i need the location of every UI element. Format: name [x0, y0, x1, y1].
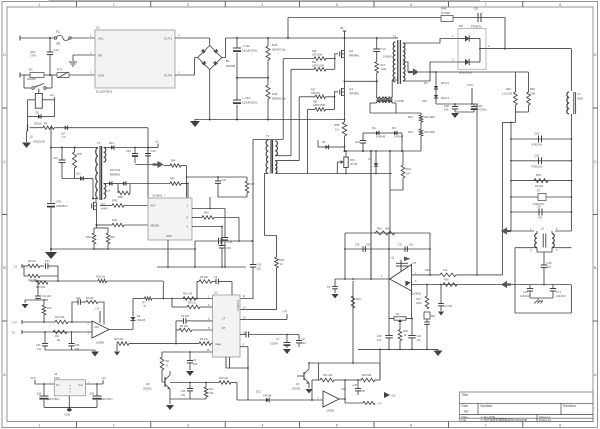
svg-text:CT/A9B: CT/A9B	[395, 99, 404, 103]
svg-text:2F1C1: 2F1C1	[441, 81, 450, 85]
svg-text:1: 1	[38, 3, 40, 7]
svg-text:Title: Title	[462, 393, 469, 397]
svg-text:7: 7	[485, 3, 487, 7]
svg-text:RS609: RS609	[226, 64, 236, 68]
svg-text:C16: C16	[355, 140, 360, 144]
svg-text:5: 5	[336, 424, 338, 428]
svg-text:R45: R45	[272, 43, 278, 47]
svg-text:6: 6	[410, 3, 412, 7]
svg-text:U3A: U3A	[94, 326, 99, 329]
svg-text:C42: C42	[126, 149, 131, 153]
svg-text:10MW: 10MW	[27, 77, 36, 81]
svg-text:E7: E7	[537, 189, 541, 193]
svg-text:300 20W: 300 20W	[424, 115, 435, 119]
svg-text:10W: 10W	[530, 93, 536, 96]
svg-text:10R/0.25W: 10R/0.25W	[312, 65, 325, 68]
svg-text:680K/0.5w: 680K/0.5w	[272, 97, 287, 101]
svg-text:ELECTRO1: ELECTRO1	[48, 399, 61, 401]
svg-text:R49: R49	[506, 87, 511, 91]
svg-text:RP1: RP1	[350, 159, 355, 162]
svg-text:471: 471	[538, 216, 543, 220]
svg-text:+5v: +5v	[391, 394, 396, 398]
svg-text:D4: D4	[424, 81, 428, 85]
svg-text:5.1/0.5W: 5.1/0.5W	[502, 93, 513, 96]
svg-text:R38: R38	[334, 123, 340, 127]
svg-text:C6: C6	[537, 205, 541, 209]
svg-text:D8: D8	[459, 24, 463, 28]
svg-text:G: G	[69, 386, 71, 388]
svg-text:0.1: 0.1	[335, 128, 339, 132]
svg-text:R18 10k: R18 10k	[219, 377, 229, 380]
svg-text:FR303V: FR303V	[471, 25, 482, 29]
svg-text:+12: +12	[155, 141, 160, 144]
svg-text:15: 15	[12, 331, 15, 335]
svg-text:C20: C20	[534, 132, 540, 136]
svg-text:R35: R35	[425, 269, 430, 272]
svg-text:104: 104	[417, 339, 422, 342]
svg-text:471: 471	[547, 265, 552, 269]
svg-text:3: 3	[187, 424, 189, 428]
svg-text:R40: R40	[86, 235, 91, 239]
svg-text:104: 104	[366, 244, 371, 247]
svg-text:R36: R36	[444, 279, 449, 282]
svg-text:4700/16v: 4700/16v	[531, 164, 543, 168]
svg-text:10R 2W: 10R 2W	[311, 92, 320, 95]
svg-text:DL0207BO1: DL0207BO1	[96, 90, 113, 94]
svg-text:7812: 7812	[54, 377, 60, 380]
svg-text:3: 3	[187, 3, 189, 7]
svg-text:C10: C10	[381, 47, 386, 51]
svg-text:UC3842: UC3842	[152, 194, 163, 198]
svg-text:D14: D14	[109, 141, 114, 145]
svg-text:C19: C19	[547, 261, 552, 265]
svg-text:1N4148: 1N4148	[137, 320, 146, 322]
svg-text:8: 8	[559, 424, 561, 428]
svg-text:10K: 10K	[443, 269, 448, 272]
svg-text:1/2W: 1/2W	[381, 68, 387, 71]
svg-text:3K 2W: 3K 2W	[350, 163, 358, 166]
svg-text:4700/16v: 4700/16v	[531, 143, 543, 147]
svg-text:MBR360: MBR360	[110, 173, 121, 177]
svg-text:OUT4: OUT4	[164, 73, 172, 77]
svg-text:R34: R34	[171, 160, 176, 163]
svg-text:150uF/200v: 150uF/200v	[242, 101, 258, 105]
svg-text:4: 4	[261, 3, 263, 7]
svg-text:2: 2	[113, 3, 115, 7]
svg-text:PE: PE	[98, 53, 102, 57]
svg-text:10R.25W: 10R.25W	[312, 54, 323, 57]
svg-text:D21: D21	[256, 390, 261, 394]
svg-text:R28: R28	[118, 195, 123, 199]
svg-text:C38: C38	[355, 244, 360, 247]
svg-text:+B: +B	[340, 26, 344, 30]
svg-text:300 20W: 300 20W	[424, 130, 435, 134]
svg-text:2F1C1: 2F1C1	[441, 96, 450, 100]
svg-text:R12: R12	[408, 115, 413, 119]
svg-text:Isage: Isage	[215, 343, 222, 346]
svg-text:R3 39k: R3 39k	[200, 276, 209, 279]
svg-text:C: C	[3, 160, 6, 164]
svg-text:275v: 275v	[30, 54, 37, 58]
svg-text:1K/2W: 1K/2W	[535, 184, 544, 188]
svg-text:LM358: LM358	[96, 341, 104, 345]
svg-text:D12 D13: D12 D13	[110, 168, 121, 172]
svg-text:R27: R27	[417, 298, 422, 301]
svg-text:39K: 39K	[385, 227, 390, 231]
svg-text:103: 103	[257, 267, 262, 271]
svg-text:2N5551: 2N5551	[143, 388, 152, 391]
svg-text:1N4148: 1N4148	[376, 135, 386, 139]
svg-text:R24 56k: R24 56k	[362, 374, 372, 377]
svg-text:100K: 100K	[416, 302, 422, 305]
svg-text:R24 10k: R24 10k	[36, 286, 46, 289]
svg-text:CR1: CR1	[478, 104, 484, 108]
svg-text:103: 103	[193, 363, 198, 366]
svg-text:R15 10k: R15 10k	[96, 276, 106, 279]
svg-text:A3: A3	[464, 410, 468, 414]
svg-text:R44: R44	[77, 152, 82, 156]
svg-text:C44: C44	[76, 297, 81, 300]
svg-text:LM358: LM358	[326, 409, 334, 413]
svg-text:R13: R13	[47, 307, 52, 310]
svg-text:2: 2	[113, 424, 115, 428]
svg-text:L1: L1	[578, 92, 582, 96]
svg-text:Revision: Revision	[563, 404, 576, 408]
svg-text:R33: R33	[280, 258, 285, 262]
svg-text:R10 10k: R10 10k	[55, 316, 65, 319]
svg-text:+12: +12	[101, 376, 106, 380]
svg-text:IRF840: IRF840	[349, 92, 359, 96]
svg-text:C41: C41	[257, 263, 262, 267]
svg-text:File: File	[462, 418, 467, 422]
svg-text:+1M: +1M	[352, 384, 357, 387]
svg-text:10K: 10K	[209, 392, 214, 395]
svg-text:Vout: Vout	[78, 384, 83, 387]
svg-text:CA3030: CA3030	[412, 292, 422, 296]
svg-text:+TP: +TP	[282, 310, 287, 314]
svg-text:103/1KV: 103/1KV	[520, 295, 530, 298]
svg-text:C33: C33	[36, 344, 41, 347]
svg-text:L3: L3	[541, 227, 545, 231]
svg-text:+12: +12	[50, 94, 55, 97]
svg-text:R17: R17	[209, 388, 214, 391]
svg-text:C3 102: C3 102	[181, 315, 190, 318]
svg-text:104: 104	[302, 342, 307, 345]
svg-text:R31: R31	[406, 167, 411, 171]
svg-text:C12: C12	[54, 48, 60, 52]
svg-text:R11: R11	[55, 335, 60, 338]
svg-text:470/25v: 470/25v	[478, 108, 488, 112]
svg-text:R51 10k: R51 10k	[183, 293, 193, 296]
svg-text:IRF840: IRF840	[349, 54, 359, 58]
svg-text:1000KV: 1000KV	[383, 56, 392, 59]
svg-text:C40: C40	[417, 335, 422, 338]
svg-text:C37: C37	[398, 244, 403, 247]
svg-text:GND: GND	[166, 235, 172, 238]
svg-text:R43: R43	[250, 183, 255, 186]
svg-text:+12: +12	[95, 307, 100, 311]
svg-text:C4b: C4b	[181, 390, 186, 393]
svg-text:2N5551/2B: 2N5551/2B	[33, 142, 45, 144]
svg-text:104: 104	[444, 108, 449, 112]
svg-text:Q6: Q6	[146, 382, 150, 386]
svg-text:VCC: VCC	[467, 83, 474, 87]
svg-text:E04: E04	[37, 394, 42, 396]
svg-text:R26: R26	[404, 330, 409, 333]
svg-text:SENSE: SENSE	[150, 224, 159, 228]
svg-text:C8: C8	[474, 7, 478, 11]
svg-text:5.6/3W: 5.6/3W	[441, 11, 450, 15]
svg-text:1K: 1K	[404, 334, 407, 337]
svg-text:R47: R47	[381, 64, 386, 67]
svg-text:C7: C7	[276, 337, 280, 341]
svg-text:D6: D6	[392, 126, 396, 130]
svg-text:R9 10k: R9 10k	[200, 338, 209, 341]
svg-text:10R/0.25W: 10R/0.25W	[313, 104, 326, 107]
svg-text:R46: R46	[272, 92, 278, 96]
svg-text:5: 5	[336, 3, 338, 7]
svg-text:R50: R50	[530, 87, 535, 91]
svg-text:R32: R32	[377, 227, 382, 231]
svg-text:F1: F1	[56, 30, 60, 34]
svg-text:C28: C28	[444, 104, 449, 108]
svg-text:RT: RT	[222, 327, 226, 330]
svg-text:GND: GND	[65, 413, 71, 417]
svg-text:+ C22: + C22	[242, 44, 250, 48]
svg-text:C32: C32	[45, 260, 50, 263]
svg-text:R4 10k: R4 10k	[86, 297, 94, 300]
svg-text:C:\监控电源原理图稿最终GWP203B: C:\监控电源原理图稿最终GWP203B	[481, 417, 527, 422]
svg-text:R13: R13	[408, 130, 413, 134]
svg-text:CT: CT	[222, 317, 226, 320]
svg-text:ELECTRO1: ELECTRO1	[101, 399, 114, 401]
svg-text:R6 10k: R6 10k	[180, 325, 189, 328]
svg-text:C34: C34	[56, 200, 62, 204]
svg-text:6: 6	[410, 424, 412, 428]
svg-text:B1: B1	[226, 59, 230, 63]
svg-text:ACL: ACL	[98, 36, 104, 40]
svg-text:TL494CN: TL494CN	[236, 300, 240, 311]
svg-text:104: 104	[377, 339, 382, 342]
svg-text:U2: U2	[214, 291, 218, 295]
svg-text:C30: C30	[361, 390, 366, 393]
svg-text:D: D	[3, 53, 6, 57]
svg-text:MUR1660: MUR1660	[459, 71, 472, 75]
svg-text:+100F: +100F	[104, 191, 111, 193]
svg-text:1N4148: 1N4148	[263, 395, 272, 398]
svg-text:3DK3A: 3DK3A	[34, 123, 42, 126]
svg-text:R42: R42	[204, 211, 209, 215]
svg-text:Drawn by: Drawn by	[539, 418, 552, 422]
svg-text:C45: C45	[226, 246, 231, 250]
svg-text:D40: D40	[422, 99, 427, 103]
svg-text:104: 104	[37, 348, 42, 351]
svg-text:R14 1k: R14 1k	[28, 260, 37, 263]
svg-text:Size: Size	[462, 404, 469, 408]
svg-text:T1: T1	[393, 35, 397, 39]
svg-text:8: 8	[559, 3, 561, 7]
svg-text:R46: R46	[441, 7, 447, 11]
svg-text:U2B: U2B	[341, 387, 346, 391]
svg-text:+12: +12	[390, 257, 395, 260]
svg-text:D4: D4	[372, 126, 376, 130]
svg-text:RT1: RT1	[57, 68, 63, 72]
svg-text:D11: D11	[76, 172, 81, 176]
svg-text:FB1: FB1	[431, 316, 436, 318]
svg-text:Q4: Q4	[349, 87, 353, 91]
svg-text:VCC: VCC	[30, 376, 36, 380]
svg-text:Q2: Q2	[349, 49, 353, 53]
svg-text:+7V: +7V	[377, 402, 382, 406]
svg-text:R8: R8	[166, 359, 170, 363]
svg-text:R43: R43	[112, 218, 117, 222]
svg-text:C31: C31	[523, 290, 528, 294]
svg-text:104: 104	[75, 348, 80, 351]
svg-text:10/50V: 10/50V	[270, 343, 278, 346]
svg-text:C35: C35	[75, 344, 80, 347]
svg-text:R51: R51	[536, 173, 542, 177]
svg-text:R21 10k: R21 10k	[323, 374, 333, 377]
svg-text:D21: D21	[35, 112, 40, 115]
svg-text:C11 102: C11 102	[42, 295, 52, 298]
svg-text:1: 1	[38, 424, 40, 428]
svg-text:C40: C40	[151, 149, 156, 153]
svg-text:12: 12	[14, 265, 18, 269]
svg-text:R41: R41	[110, 235, 115, 239]
svg-text:T4: T4	[97, 141, 101, 145]
svg-text:2N5551: 2N5551	[292, 388, 301, 391]
svg-text:U1: U1	[96, 26, 100, 30]
svg-text:R45: R45	[170, 178, 175, 181]
svg-text:R34: R34	[356, 298, 361, 301]
svg-text:R52 1k: R52 1k	[188, 302, 197, 305]
svg-text:C13: C13	[53, 156, 58, 160]
svg-text:OUT: OUT	[150, 204, 156, 208]
svg-text:7: 7	[485, 424, 487, 428]
svg-text:C26: C26	[534, 153, 540, 157]
svg-text:R16 10k: R16 10k	[114, 338, 124, 341]
svg-text:OUT1: OUT1	[164, 36, 172, 40]
svg-text:4: 4	[261, 424, 263, 428]
svg-text:CY2: CY2	[556, 290, 562, 294]
svg-text:C: C	[594, 160, 597, 164]
svg-text:4N60: 4N60	[101, 207, 108, 211]
svg-text:R39: R39	[112, 199, 117, 203]
svg-text:102/1KV: 102/1KV	[556, 295, 566, 298]
svg-text:Number: Number	[481, 404, 494, 408]
svg-text:220/450V: 220/450V	[56, 204, 68, 208]
svg-text:EE8: EE8	[578, 97, 584, 101]
svg-text:680K/0.5w: 680K/0.5w	[272, 48, 287, 52]
svg-text:C21 404: C21 404	[444, 306, 453, 308]
svg-text:E05: E05	[90, 394, 95, 396]
svg-text:ACN: ACN	[98, 73, 104, 77]
svg-text:104: 104	[409, 244, 414, 247]
svg-text:C25: C25	[222, 179, 227, 182]
svg-text:D: D	[594, 53, 597, 57]
svg-text:R1: R1	[29, 68, 33, 72]
svg-text:+7V: +7V	[12, 321, 17, 325]
svg-text:104: 104	[181, 394, 186, 397]
svg-text:150uF/200v: 150uF/200v	[242, 49, 258, 53]
svg-text:C39: C39	[377, 335, 382, 338]
svg-text:U5: U5	[413, 261, 417, 265]
svg-text:T1: T1	[266, 134, 270, 138]
svg-text:+ C23: + C23	[242, 96, 250, 100]
